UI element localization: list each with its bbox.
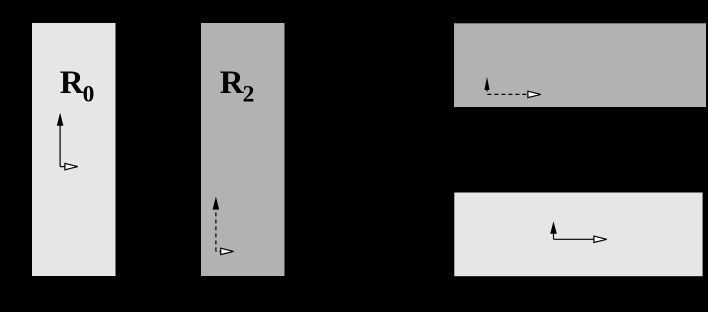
rectangle R2 [201,23,285,276]
R1 axis x-arrow (solid, open head) [554,236,607,242]
R3 axis y-arrow (short, filled head) [484,77,489,92]
svg-text:0: 0 [83,81,95,107]
rectangle R0 [32,23,116,276]
rectangle R3 (top right, rotated) [454,23,706,107]
R2 axis x-arrow (dashed, open head) [216,248,234,254]
R0 axis y-arrow (solid, filled head) [57,113,64,167]
svg-text:R: R [60,65,85,101]
R2 axis y-arrow (dashed, filled head) [213,197,220,252]
label R2 [220,65,255,108]
R3 axis x-arrow (dashed, open head) [487,91,540,97]
label R0 [60,65,95,108]
rectangle R1 (bottom right, rotated) [454,193,702,277]
svg-text:R: R [220,65,245,101]
svg-text:2: 2 [243,81,255,107]
R0 axis x-arrow (solid, open head) [60,163,78,169]
R1 axis y-arrow (solid, filled head) [550,221,557,239]
